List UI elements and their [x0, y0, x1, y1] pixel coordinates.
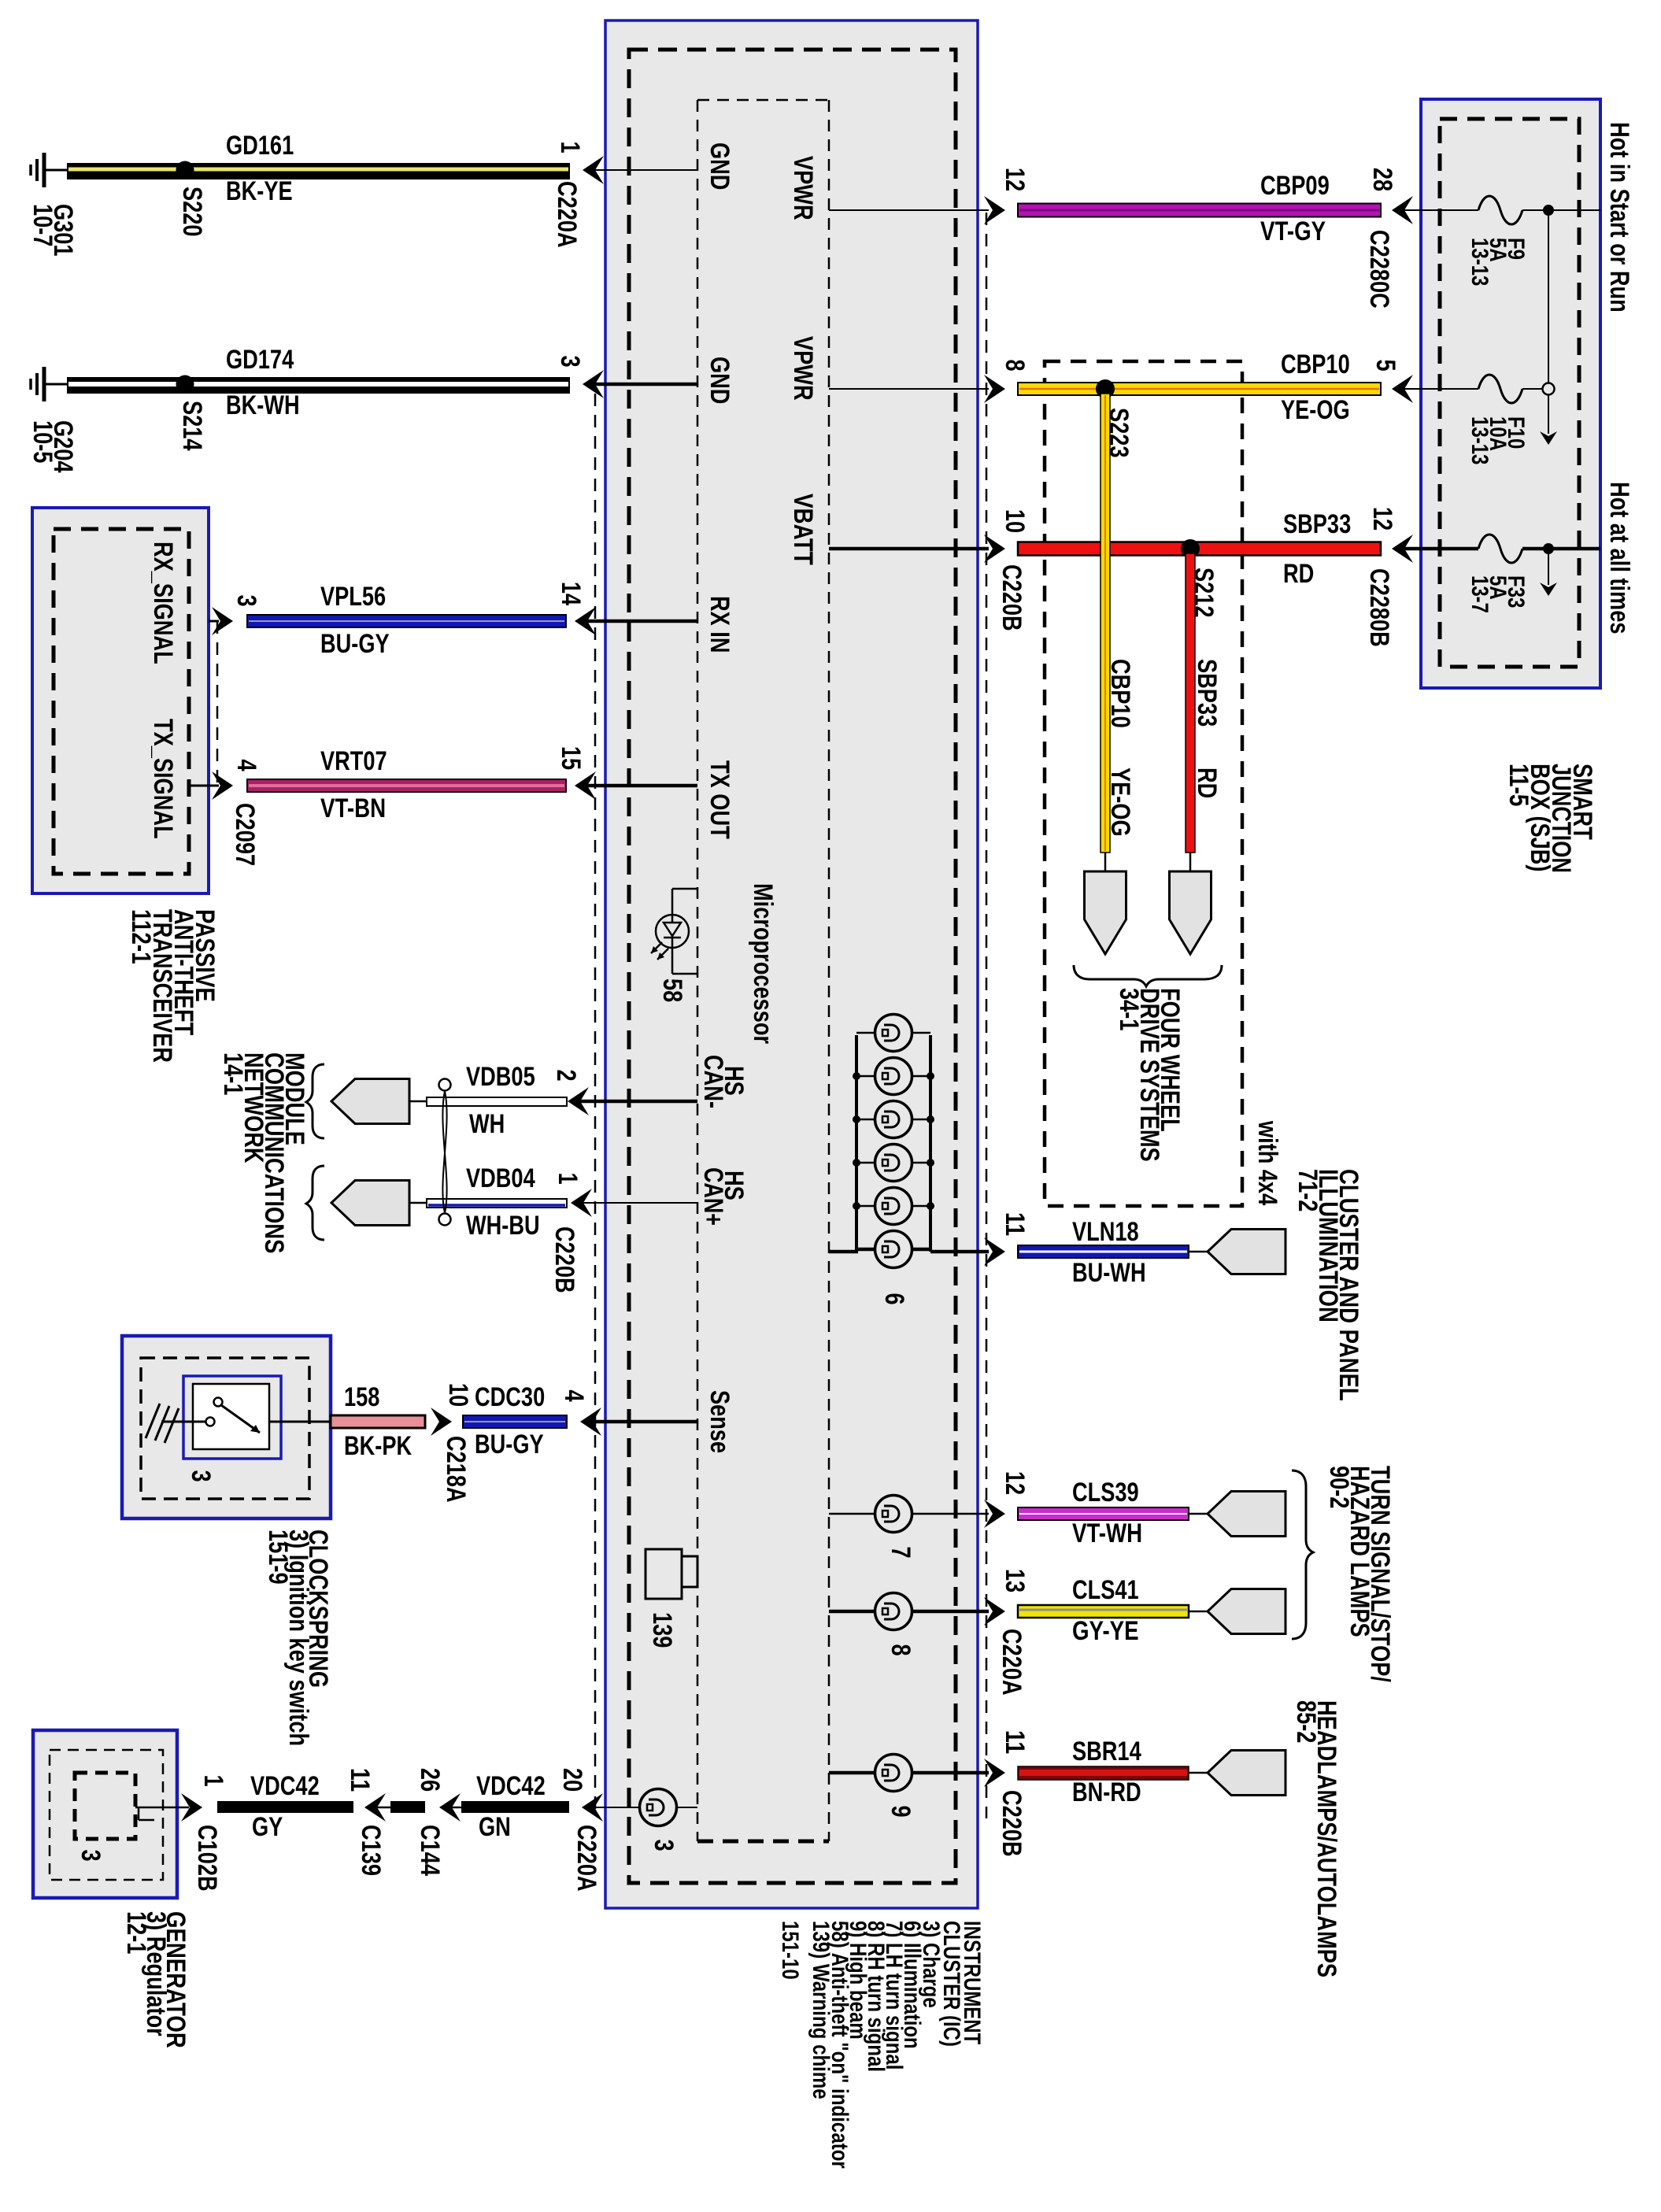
- wire VDC42 GY: [217, 1801, 353, 1813]
- connector C102B pin 1 arrow: [181, 1793, 202, 1822]
- wire lamp bank to pin 11: [930, 1250, 989, 1254]
- label: RX IN: [705, 596, 734, 653]
- ground G204: [31, 367, 67, 401]
- label: VBATT: [788, 494, 818, 565]
- label: VDC42 (GY): [250, 1771, 320, 1801]
- svg-text:VDC42: VDC42: [476, 1771, 546, 1801]
- pin 28: [1367, 168, 1397, 191]
- svg-text:7: 7: [886, 1546, 916, 1558]
- svg-text:10-7: 10-7: [28, 204, 57, 246]
- pin 5: [1371, 359, 1400, 371]
- connector C220B pin 10 arrow: [984, 535, 1005, 563]
- label: F33 5A 13-7: [1467, 575, 1529, 613]
- connector C220B pin 2 arrow: [568, 1087, 589, 1115]
- pin 12 (CLS39): [1000, 1471, 1030, 1495]
- svg-text:C220B: C220B: [997, 1790, 1027, 1857]
- pin 13: [1000, 1569, 1030, 1592]
- wire high beam to pin 11: [829, 1771, 989, 1775]
- svg-text:VT-GY: VT-GY: [1260, 216, 1326, 246]
- svg-text:WH-BU: WH-BU: [466, 1211, 540, 1241]
- label: Microprocessor: [748, 883, 778, 1044]
- generator box: [33, 1730, 177, 1898]
- label: C2280B: [1364, 568, 1394, 647]
- illumination lamp 5: [875, 1188, 912, 1225]
- label: INSTRUMENT CLUSTER (IC) legend: [777, 1921, 985, 2169]
- lamp row 4 wire: [856, 1162, 930, 1164]
- label: S212: [1189, 568, 1219, 618]
- svg-text:TX_SIGNAL: TX_SIGNAL: [148, 719, 178, 839]
- label: FOUR WHEEL DRIVE SYSTEMS 34-1: [1114, 988, 1185, 1162]
- svg-text:VDB05: VDB05: [466, 1062, 535, 1092]
- label: SBR14: [1072, 1737, 1141, 1766]
- label: S223: [1104, 408, 1134, 458]
- svg-text:RX IN: RX IN: [705, 596, 734, 653]
- illumination lamp 3: [875, 1101, 912, 1138]
- connector C144 pin 26 arrow: [439, 1793, 461, 1822]
- wire CLS39 VT-WH: [1018, 1507, 1189, 1520]
- svg-text:TX OUT: TX OUT: [705, 760, 734, 839]
- label: F10 10A 13-13: [1467, 416, 1529, 464]
- svg-text:12: 12: [1000, 168, 1030, 191]
- svg-text:5: 5: [1371, 359, 1400, 371]
- connector C220B pin 8 arrow: [984, 375, 1005, 403]
- illumination lamp 1: [875, 1015, 912, 1052]
- label: C2280C: [1364, 230, 1394, 309]
- pin 3: [555, 355, 585, 367]
- svg-text:90-2: 90-2: [1324, 1466, 1354, 1508]
- svg-text:GY-YE: GY-YE: [1072, 1616, 1139, 1646]
- connector (turn signal 1): [1208, 1492, 1286, 1537]
- label: GD161: [226, 131, 294, 161]
- lamp row 1 wire: [856, 1032, 930, 1034]
- svg-text:BK-YE: BK-YE: [226, 176, 293, 206]
- wire to HS CAN-: [580, 1100, 697, 1104]
- svg-text:RD: RD: [1283, 559, 1314, 589]
- instrument cluster (IC) box: [605, 20, 978, 1908]
- svg-text:13-13: 13-13: [1467, 238, 1493, 286]
- pin lead (red): [1189, 853, 1192, 871]
- wire to turn/hazard connector 2: [1189, 1611, 1208, 1613]
- label: GENERATOR 3) Regulator 12-1: [121, 1911, 191, 2048]
- label: C144: [415, 1825, 445, 1876]
- label: GND: [705, 142, 734, 190]
- wire to RX IN: [586, 620, 697, 623]
- svg-text:Hot in Start or Run: Hot in Start or Run: [1604, 122, 1634, 313]
- svg-text:VT-WH: VT-WH: [1072, 1518, 1142, 1548]
- connector C220A pin 3 arrow: [583, 370, 604, 398]
- label: VPWR: [788, 156, 818, 220]
- svg-text:BU-GY: BU-GY: [320, 629, 390, 659]
- svg-text:58: 58: [657, 978, 687, 1002]
- svg-text:GD174: GD174: [226, 345, 294, 375]
- brace (VDB05 network): [306, 1064, 324, 1138]
- label: S220: [177, 187, 207, 237]
- wire VPL56 BU-GY: [247, 615, 566, 627]
- regulator dashed box: [75, 1773, 135, 1839]
- label: BU-WH: [1072, 1258, 1146, 1288]
- pin 26: [415, 1768, 445, 1792]
- wire VDB05 WH: [409, 1097, 567, 1106]
- label: VT-GY: [1260, 216, 1326, 246]
- label: GN: [479, 1812, 511, 1842]
- high beam indicator lamp 9: [875, 1755, 912, 1792]
- svg-text:VLN18: VLN18: [1072, 1217, 1139, 1247]
- pin 4: [559, 1389, 589, 1401]
- svg-text:139) Warning chime: 139) Warning chime: [808, 1921, 834, 2099]
- connector C220B pin 4 arrow: [580, 1407, 601, 1436]
- wire SBP33 RD: [1018, 542, 1381, 556]
- illumination lamp 2: [875, 1058, 912, 1095]
- splice S220: [176, 161, 194, 179]
- label: C102B: [192, 1825, 222, 1892]
- wire CLS41 GY-YE: [1018, 1605, 1189, 1618]
- pin 11 (VLN18): [1000, 1212, 1030, 1236]
- svg-text:1: 1: [198, 1774, 228, 1786]
- svg-text:10-5: 10-5: [28, 420, 57, 463]
- svg-text:3: 3: [555, 355, 585, 367]
- svg-text:BK-PK: BK-PK: [344, 1431, 412, 1461]
- svg-text:12: 12: [1367, 507, 1397, 531]
- pin lead (yellow): [1104, 853, 1107, 871]
- wire to HS CAN+: [583, 1202, 697, 1204]
- wire VPWR 1 to pin: [829, 209, 989, 211]
- pin 11 (C139): [345, 1768, 375, 1792]
- label: SBP33 RD (vertical): [1192, 659, 1222, 798]
- label: GY-YE: [1072, 1616, 1139, 1646]
- svg-text:S214: S214: [177, 401, 207, 451]
- generator inner dashed outline: [50, 1750, 163, 1880]
- svg-text:151-9: 151-9: [263, 1530, 293, 1585]
- pin 14: [556, 582, 586, 605]
- brace turn signal lamps: [1292, 1470, 1313, 1639]
- connector C220A pin 13 arrow: [984, 1597, 1005, 1626]
- wire GD161 BK-YE: [67, 163, 570, 179]
- svg-text:139: 139: [647, 1612, 677, 1648]
- svg-text:C102B: C102B: [192, 1825, 222, 1892]
- wire 158 BK-PK: [331, 1415, 425, 1428]
- svg-text:2: 2: [551, 1069, 581, 1081]
- label: 3 (ignition switch): [186, 1470, 216, 1481]
- wire F9 to Hot in Start or Run: [1522, 209, 1600, 211]
- svg-text:Microprocessor: Microprocessor: [748, 883, 778, 1044]
- ignition key switch inner box: [183, 1376, 281, 1459]
- splice S223: [1096, 379, 1115, 398]
- label: BU-GY: [320, 629, 390, 659]
- SJB inner dashed outline: [1440, 119, 1579, 667]
- label: BK-PK: [344, 1431, 412, 1461]
- connector C2097 pin 3 arrow: [212, 607, 233, 635]
- lamp row 3 wire: [856, 1119, 930, 1121]
- label: CBP10: [1281, 350, 1350, 379]
- svg-text:C2097: C2097: [230, 803, 260, 866]
- svg-text:C2280B: C2280B: [1364, 568, 1394, 647]
- svg-text:CLS41: CLS41: [1072, 1575, 1139, 1605]
- clockspring box: [122, 1336, 331, 1518]
- svg-text:C139: C139: [356, 1825, 386, 1876]
- wire to illumination connector: [1189, 1251, 1208, 1253]
- SJB pin 12 arrow: [1392, 535, 1413, 563]
- pin 8: [1000, 359, 1030, 371]
- wire to IC GND pin 2: [593, 383, 697, 387]
- wire PATS TX_SIGNAL: [191, 785, 219, 787]
- svg-text:SBR14: SBR14: [1072, 1737, 1141, 1766]
- svg-text:8: 8: [1000, 359, 1030, 371]
- svg-text:1: 1: [553, 1172, 583, 1184]
- svg-text:CBP10: CBP10: [1105, 659, 1135, 728]
- connector C220A pin 20 arrow: [582, 1793, 603, 1822]
- svg-text:1: 1: [555, 141, 585, 153]
- label: Hot in Start or Run: [1604, 122, 1634, 313]
- connector (headlamps): [1208, 1751, 1286, 1796]
- pin 10: [443, 1383, 473, 1407]
- svg-text:CBP09: CBP09: [1260, 171, 1330, 201]
- label: C220B (SBR14): [997, 1790, 1027, 1857]
- RH turn indicator lamp 8: [875, 1593, 912, 1630]
- label: BK-WH: [226, 390, 300, 420]
- label: CDC30: [475, 1382, 545, 1412]
- label: WH: [469, 1109, 505, 1139]
- wire to IC GND pin: [594, 169, 697, 171]
- svg-text:158: 158: [344, 1382, 379, 1412]
- pin 15: [556, 746, 586, 770]
- label: RX_SIGNAL: [148, 542, 178, 664]
- label: with 4x4: [1252, 1120, 1282, 1205]
- connector (cluster illumination): [1208, 1230, 1286, 1274]
- svg-text:YE-OG: YE-OG: [1105, 768, 1135, 837]
- svg-text:VT-BN: VT-BN: [320, 793, 386, 823]
- label: CBP09: [1260, 171, 1330, 201]
- svg-text:11: 11: [1000, 1212, 1030, 1236]
- illumination lamp 4: [875, 1145, 912, 1182]
- pin 12 (C2280C): [1000, 168, 1030, 191]
- svg-text:CBP10: CBP10: [1281, 350, 1350, 379]
- svg-text:6: 6: [879, 1293, 909, 1304]
- svg-text:VPWR: VPWR: [788, 336, 818, 401]
- charge indicator lamp 3: [640, 1789, 677, 1826]
- label: VLN18: [1072, 1217, 1139, 1247]
- label: TX OUT: [705, 760, 734, 839]
- brace four wheel drive systems: [1074, 965, 1222, 986]
- label: BN-RD: [1072, 1777, 1141, 1807]
- wire VDC42 GN: [451, 1801, 569, 1813]
- connector C139 pin 11 arrow: [364, 1793, 386, 1822]
- network connector (VDB04): [331, 1181, 409, 1226]
- wire PATS RX_SIGNAL: [209, 620, 219, 623]
- LH turn indicator lamp 7: [875, 1496, 912, 1533]
- wire VDB04 WH-BU: [409, 1199, 567, 1208]
- splice S214: [176, 375, 194, 394]
- label: HS CAN+: [698, 1167, 749, 1226]
- label: G301 10-7: [28, 204, 78, 257]
- svg-text:85-2: 85-2: [1291, 1700, 1321, 1743]
- label: YE-OG: [1281, 395, 1350, 425]
- lamp row 6 wire: [856, 1248, 930, 1252]
- label: GY: [252, 1812, 283, 1842]
- wire F10 to bus: [1522, 388, 1542, 390]
- lamp bank rails: [856, 1035, 930, 1252]
- svg-text:with 4x4: with 4x4: [1252, 1120, 1282, 1205]
- svg-text:9: 9: [886, 1805, 916, 1817]
- svg-text:3: 3: [186, 1470, 216, 1481]
- label: 3 (charge): [649, 1839, 679, 1851]
- svg-text:VPL56: VPL56: [320, 582, 386, 612]
- connector C220A/C220B dashed line (left): [594, 394, 597, 1811]
- label: 58: [657, 978, 687, 1002]
- pin 1 (CAN+): [553, 1172, 583, 1184]
- svg-text:14-1: 14-1: [218, 1052, 248, 1095]
- pin 4 (C2097): [231, 759, 261, 771]
- svg-text:151-10: 151-10: [777, 1921, 803, 1980]
- wire RH turn to pin 13: [829, 1610, 989, 1614]
- pin 10 (C220B): [1000, 509, 1030, 533]
- svg-text:C220A: C220A: [552, 181, 582, 248]
- wire VLN18 BU-WH: [1018, 1245, 1189, 1258]
- label: C220B (pin 10): [997, 564, 1027, 631]
- svg-text:C220B: C220B: [549, 1226, 579, 1293]
- svg-text:112-1: 112-1: [126, 909, 156, 964]
- clockspring inner dashed outline: [141, 1358, 309, 1499]
- svg-text:VPWR: VPWR: [788, 156, 818, 220]
- F33 bus continuation arrow: [1540, 583, 1557, 596]
- pin terminal (red wire): [1170, 871, 1212, 954]
- svg-text:3: 3: [231, 594, 261, 606]
- junction dots row 4: [853, 1159, 934, 1167]
- pin 11 (SBR14): [1000, 1730, 1030, 1754]
- label: VT-WH: [1072, 1518, 1142, 1548]
- label: HEADLAMPS/AUTOLAMPS 85-2: [1291, 1700, 1341, 1977]
- wire SBR14 BN-RD: [1018, 1766, 1189, 1780]
- svg-text:10: 10: [1000, 509, 1030, 533]
- twisted pair symbol: [439, 1079, 451, 1226]
- svg-text:34-1: 34-1: [1114, 988, 1144, 1030]
- label: GD174: [226, 345, 294, 375]
- svg-text:C144: C144: [415, 1825, 445, 1876]
- svg-text:BU-WH: BU-WH: [1072, 1258, 1146, 1288]
- fuse F10 10A: [1478, 375, 1522, 403]
- connector C220A pin 12 arrow: [984, 1500, 1005, 1528]
- pin 3 (C2097): [231, 594, 261, 606]
- junction dots row 5: [853, 1202, 934, 1210]
- junction node F9 bus: [1543, 205, 1554, 216]
- SJB pin 5 arrow: [1392, 375, 1413, 403]
- wire CBP09 VT-GY: [1018, 204, 1381, 217]
- svg-text:YE-OG: YE-OG: [1281, 395, 1350, 425]
- wire to turn/hazard connector 1: [1189, 1513, 1208, 1515]
- label: TURN SIGNAL/STOP/ HAZARD LAMPS 90-2: [1324, 1466, 1395, 1682]
- label: C218A: [441, 1436, 471, 1503]
- connector C220A/C220B dashed line (right): [986, 213, 988, 1818]
- svg-text:CDC30: CDC30: [475, 1382, 545, 1412]
- warning chime 139: [646, 1549, 697, 1599]
- ground G301: [31, 153, 67, 187]
- label: F9 5A 13-13: [1467, 238, 1529, 286]
- fuse F9 5A: [1478, 196, 1522, 224]
- svg-text:14: 14: [556, 582, 586, 605]
- connector C220B pin 11 arrow (SBR14): [984, 1759, 1005, 1787]
- wire VBATT to pin: [829, 547, 989, 551]
- svg-text:12: 12: [1000, 1471, 1030, 1495]
- connector C2097 dashed line: [216, 621, 219, 786]
- label: S214: [177, 401, 207, 451]
- label: 139: [647, 1612, 677, 1648]
- wire regulator to pin: [135, 1807, 189, 1809]
- svg-text:CAN-: CAN-: [698, 1055, 728, 1108]
- svg-text:10: 10: [443, 1383, 473, 1407]
- label: WH-BU: [466, 1211, 540, 1241]
- svg-text:GD161: GD161: [226, 131, 294, 161]
- illumination lamp 6: [875, 1231, 912, 1268]
- svg-text:26: 26: [415, 1768, 445, 1792]
- svg-text:VRT07: VRT07: [320, 746, 387, 776]
- label: HS CAN-: [698, 1055, 749, 1108]
- network connector (VDB05): [331, 1079, 409, 1124]
- label: G204 10-5: [28, 420, 78, 473]
- label: VDC42 (GN): [476, 1771, 546, 1801]
- connector C2280C pin 12 arrow: [984, 196, 1005, 224]
- svg-text:11: 11: [345, 1768, 375, 1792]
- bus continuation arrow: [1540, 431, 1557, 445]
- label: GND (2): [705, 357, 734, 404]
- label: C2097: [230, 803, 260, 866]
- smart junction box (SJB): [1421, 99, 1600, 688]
- label: Hot at all times: [1604, 482, 1634, 634]
- PATS inner dashed outline: [54, 529, 189, 874]
- svg-text:GND: GND: [705, 357, 734, 404]
- F33 bus wire down: [1548, 549, 1549, 585]
- svg-text:S220: S220: [177, 187, 207, 237]
- svg-text:C220A: C220A: [997, 1629, 1027, 1696]
- svg-text:GY: GY: [252, 1812, 283, 1842]
- ignition key switch contacts and blade: [206, 1398, 331, 1433]
- svg-text:4: 4: [231, 759, 261, 771]
- label: 158: [344, 1382, 379, 1412]
- wire CDC30 BU-GY: [463, 1415, 567, 1428]
- label: VRT07: [320, 746, 387, 776]
- label: 6: [879, 1293, 909, 1304]
- svg-text:28: 28: [1367, 168, 1397, 191]
- SJB pin 28 arrow: [1392, 196, 1413, 224]
- pin 20: [557, 1768, 587, 1792]
- svg-text:RD: RD: [1192, 768, 1222, 798]
- splice S212: [1181, 539, 1200, 558]
- junction dots row 2: [853, 1072, 934, 1080]
- svg-text:13-7: 13-7: [1467, 575, 1493, 613]
- wire into SJB fuse F10: [1404, 388, 1478, 390]
- label: SBP33: [1283, 509, 1351, 539]
- microprocessor dashed box: [697, 100, 829, 1841]
- label: TX_SIGNAL: [148, 719, 178, 839]
- label: Sense: [705, 1390, 734, 1453]
- svg-text:C218A: C218A: [441, 1436, 471, 1503]
- fuse F33 5A: [1478, 535, 1522, 563]
- wire into SJB fuse F33: [1404, 547, 1478, 551]
- label: VT-BN: [320, 793, 386, 823]
- svg-text:4: 4: [559, 1389, 589, 1401]
- wire LH turn to pin 12: [829, 1513, 989, 1515]
- wire CBP10 YE-OG (vertical): [1101, 394, 1110, 853]
- wire into SJB fuse F9: [1404, 209, 1478, 211]
- connector C220A pin 1 arrow: [583, 156, 604, 184]
- label: CLS39: [1072, 1478, 1139, 1507]
- label: BK-YE: [226, 176, 293, 206]
- label: MODULE COMMUNICATIONS NETWORK 14-1: [218, 1052, 309, 1253]
- label: 9: [886, 1805, 916, 1817]
- regulator stub: [139, 1807, 154, 1820]
- wire C139 to C144: [376, 1801, 425, 1813]
- connector C220B pin 14 arrow: [575, 607, 596, 635]
- wire F33 to Hot at all times: [1522, 547, 1600, 551]
- svg-text:Sense: Sense: [705, 1390, 734, 1453]
